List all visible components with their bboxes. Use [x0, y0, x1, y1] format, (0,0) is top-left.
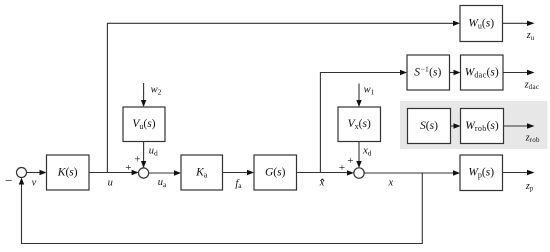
label fa: [235, 178, 242, 190]
gray robustness region: [400, 101, 548, 149]
block Vu(s): [123, 107, 165, 142]
block Wp(s): [460, 155, 503, 191]
label u: [108, 177, 113, 188]
label w1: [364, 85, 375, 97]
wire Wp out: [503, 170, 535, 175]
wire feedback path: [19, 173, 423, 244]
label xhat: [319, 178, 325, 189]
summing junction S3: [354, 168, 364, 178]
label xd: [362, 146, 372, 158]
svg-text:+: +: [339, 162, 345, 174]
svg-text:u: u: [108, 177, 113, 188]
wire Wdac out: [503, 70, 535, 75]
label ud: [149, 146, 158, 158]
wire Vu to S2: [141, 142, 146, 169]
wire K(s) to S2: [89, 170, 139, 175]
label plus upper: [134, 153, 140, 165]
wire Vx to S3: [356, 142, 361, 169]
label zp: [525, 181, 534, 193]
label minus: [5, 173, 12, 188]
svg-text:Wu(s): Wu(s): [468, 17, 494, 30]
wire Ka to G(s): [223, 170, 255, 175]
wire Wrob out: [504, 123, 535, 128]
wire S1 to K(s): [27, 170, 47, 175]
block Wdac(s): [461, 55, 504, 90]
wire Wu out: [503, 21, 535, 26]
label plus left: [125, 162, 131, 174]
label x: [387, 177, 393, 188]
block Wrob(s): [461, 109, 504, 144]
wire branch xhat up to Sinv: [320, 70, 407, 173]
label zdac: [524, 79, 540, 91]
block K(s): [47, 155, 90, 190]
svg-text:−: −: [5, 173, 12, 188]
label ua: [158, 177, 167, 189]
label zu: [526, 30, 535, 42]
svg-text:+: +: [134, 153, 140, 165]
wire S3 to Wp: [364, 170, 460, 175]
label w2: [151, 85, 162, 97]
block Vx(s): [338, 107, 381, 142]
wire w1 into Vx: [356, 84, 361, 108]
summing junction S2: [139, 168, 149, 178]
label plus left: [339, 162, 345, 174]
block Sinv: [407, 55, 450, 90]
summing junction S1: [17, 168, 27, 178]
svg-text:K(s): K(s): [57, 166, 78, 178]
svg-text:+: +: [125, 162, 131, 174]
block S(s): [408, 109, 451, 144]
svg-text:+: +: [347, 155, 353, 167]
wire w2 into Vu: [141, 83, 146, 107]
block Wu(s): [460, 6, 503, 42]
svg-text:G(s): G(s): [265, 166, 286, 178]
svg-text:Vx(s): Vx(s): [348, 118, 371, 131]
svg-text:x: x: [387, 177, 393, 188]
wire G(s) to S3: [297, 170, 354, 175]
label plus upper: [347, 155, 353, 167]
wire S2 to Ka: [149, 170, 181, 175]
label zrob: [525, 132, 540, 144]
svg-text:v: v: [32, 178, 37, 189]
svg-text:S(s): S(s): [420, 120, 438, 132]
block G(s): [254, 155, 297, 190]
block Ka: [181, 155, 223, 190]
wire branch u up to Wu: [107, 21, 460, 173]
wire Sinv to Wdac: [450, 70, 461, 75]
svg-text:Wp(s): Wp(s): [468, 166, 494, 179]
svg-text:Vu(s): Vu(s): [132, 118, 155, 131]
wire S to Wrob: [451, 123, 461, 128]
label v: [32, 178, 37, 189]
